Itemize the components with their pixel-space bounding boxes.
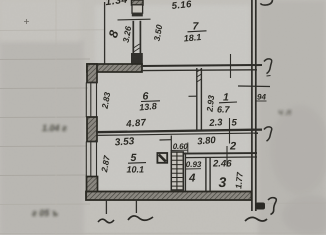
ruled line 2	[0, 58, 90, 61]
faint vertical rule	[55, 0, 57, 235]
dash left of 0.60	[160, 139, 172, 141]
wall column between room 8 and 7 : hatched top block	[132, 0, 144, 5]
wall stub below left	[105, 200, 107, 215]
wall above rooms 4/3 lower line	[185, 156, 257, 159]
paper shading left margin	[0, 40, 84, 235]
partition hatches	[197, 69, 202, 82]
window room 5: middle line	[90, 142, 92, 177]
mid horizontal wall lower line	[96, 133, 258, 135]
column double wall right line	[139, 21, 141, 54]
left wall mid hatched block	[87, 117, 97, 142]
0.60 right tick	[187, 143, 189, 153]
window room 5 caps	[86, 142, 97, 177]
tick crossing top wall at x230	[230, 54, 232, 78]
paper shading right side	[258, 0, 326, 235]
tick right of column	[118, 18, 151, 21]
window room 6: inner line	[96, 83, 98, 118]
room 5 fraction line	[128, 162, 146, 165]
vent symbol square	[157, 153, 167, 163]
ruled line 8	[0, 232, 326, 235]
fly speck	[24, 19, 29, 24]
squiggle bottom right	[268, 198, 276, 215]
left exterior wall: corner block top	[87, 64, 97, 83]
room 8 west wall (thin line)	[104, 2, 106, 65]
break tilde left	[98, 219, 114, 223]
column solid base block	[131, 53, 143, 65]
column crosshatch	[134, 44, 140, 52]
partition rooms 4/3 left line	[205, 158, 207, 193]
ruled line 1	[0, 29, 105, 32]
vent shaft rungs	[171, 156, 182, 186]
ruled line 7b	[255, 202, 326, 205]
window room 5: inner line	[96, 142, 98, 177]
tick crossing corridor wall at x227	[226, 146, 228, 167]
window in column	[132, 5, 143, 13]
wall above rooms 4/3 upper line	[183, 152, 257, 155]
window room 5: outer line	[85, 142, 87, 177]
label 94 underline	[257, 100, 267, 102]
vent shaft box	[171, 152, 183, 190]
break tilde bottom right	[245, 217, 267, 221]
squiggle at top-wall right end	[264, 59, 272, 74]
left wall bottom corner block	[87, 177, 98, 193]
tick crossing mid wall at x229	[229, 118, 231, 144]
room 1 fraction line	[219, 101, 237, 104]
vent symbol diagonal	[159, 155, 166, 162]
ruled line 3	[0, 87, 88, 90]
paper blotch right mid	[270, 105, 326, 195]
niche west line	[170, 136, 172, 158]
bottom exterior wall	[86, 192, 252, 201]
vent shaft inner vertical	[176, 152, 178, 191]
wall stub below mid	[135, 200, 137, 214]
squiggle at mid wall right end	[264, 127, 272, 141]
partition wall rooms 6/1 right line	[200, 68, 202, 131]
squiggle at right wall top	[261, 0, 273, 5]
mid horizontal wall upper line	[96, 130, 262, 133]
0.60 underline	[171, 149, 189, 151]
ruled line 7	[0, 203, 90, 206]
0.93 underline	[186, 168, 201, 170]
break tilde mid	[128, 216, 153, 220]
paper blotch bottom right	[282, 195, 326, 235]
small tick upper right of 94	[267, 75, 271, 78]
window room 6: middle line	[90, 83, 92, 118]
right exterior wall outer line	[251, 0, 253, 211]
paper shading top left	[0, 0, 80, 42]
top wall double line lower	[142, 69, 257, 72]
dark band below window	[132, 14, 143, 17]
niche east wall line	[184, 153, 186, 194]
column double wall left line	[132, 21, 134, 54]
room 7 fraction line	[188, 31, 207, 32]
ruled line 4	[0, 116, 88, 119]
partition wall rooms 6/1 left line	[196, 68, 198, 131]
right exterior wall inner line	[255, 0, 257, 211]
room 6 fraction line	[141, 100, 160, 103]
window room 6 caps	[86, 83, 97, 118]
bottom right wall foot blob	[256, 203, 266, 210]
partition rooms 4/3 right line	[209, 158, 211, 193]
paper light interior	[95, 5, 250, 190]
window room 6: outer line	[85, 83, 87, 118]
top wall hatched part (rooms 8/6)	[87, 64, 142, 72]
ruled line 6	[0, 174, 87, 177]
tick left of partition	[189, 95, 197, 97]
ruled line 5	[0, 145, 87, 148]
dimension tick across right wall	[238, 85, 270, 88]
top wall double line upper	[142, 65, 262, 66]
